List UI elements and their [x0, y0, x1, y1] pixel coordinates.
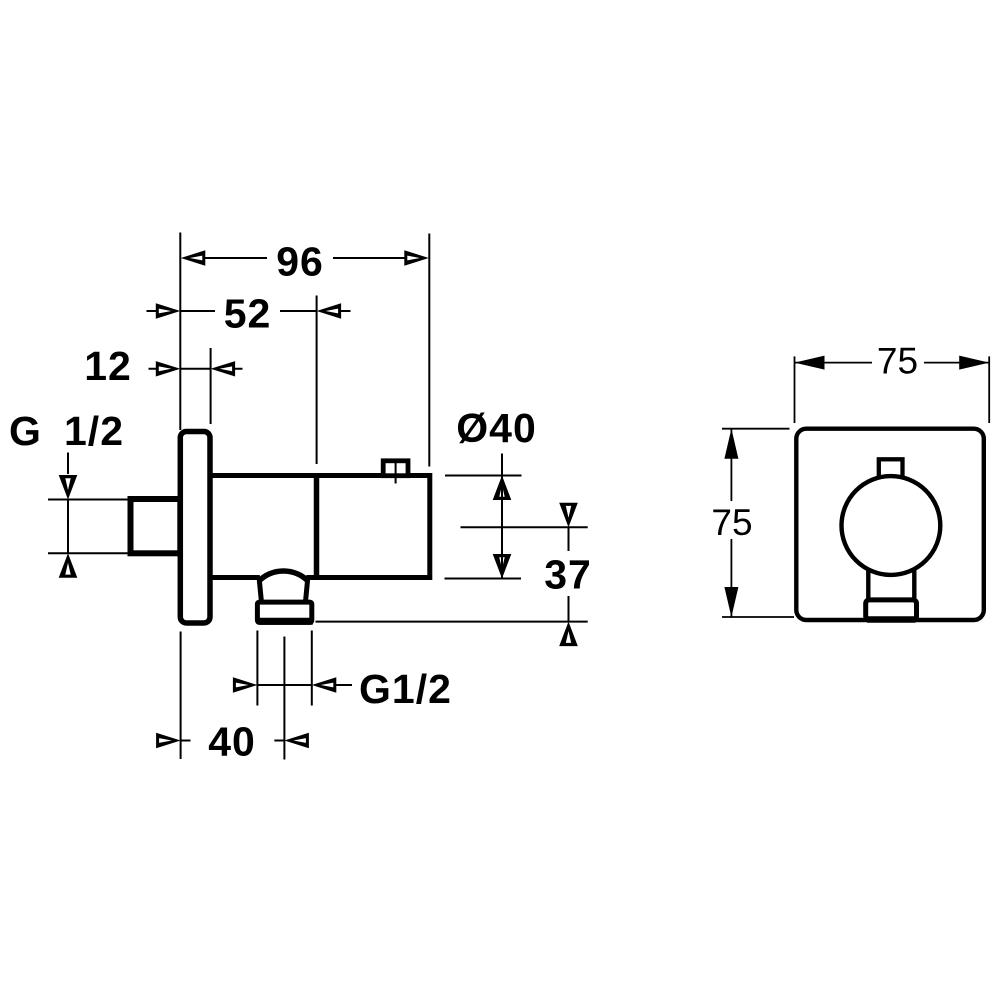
dim O40 ref top — [445, 475, 522, 477]
connector stub G1/2 — [131, 499, 181, 553]
extension line 96 right — [428, 234, 430, 467]
knob center line — [395, 459, 397, 484]
spout neck right — [306, 580, 308, 601]
front circle — [842, 476, 941, 575]
front knob — [879, 459, 903, 481]
ext line collar right — [311, 631, 313, 706]
dim 52 arrow left — [156, 303, 181, 318]
front collar — [866, 600, 917, 620]
svg-text:G: G — [9, 408, 42, 454]
dim O40 arrow down — [493, 554, 512, 579]
spout collar bottom band — [259, 618, 313, 625]
dim G1/2 left line between — [67, 500, 69, 554]
dim 37 arrow up — [559, 622, 578, 647]
dim 75 top line — [795, 362, 990, 364]
front neck right — [912, 569, 916, 599]
dim 96 line — [205, 257, 405, 259]
wall plate — [180, 432, 210, 624]
dim 75 left arrow up — [724, 429, 738, 459]
knob on body — [383, 461, 408, 476]
svg-text:12: 12 — [84, 343, 132, 389]
spout neck left — [259, 580, 261, 601]
square escutcheon — [796, 429, 984, 620]
dim G1/2 bottom arrow left — [233, 677, 258, 692]
dim 37 ref bottom — [316, 621, 588, 623]
dim 12 arrow left — [156, 361, 181, 376]
svg-text:G1/2: G1/2 — [359, 666, 452, 712]
dim 37 ref center — [461, 526, 588, 528]
front collar bottom band — [867, 616, 916, 623]
dim G1/2 left arrow down — [59, 475, 78, 500]
dim O40 ref bottom — [445, 578, 522, 580]
svg-text:37: 37 — [544, 552, 592, 598]
svg-text:75: 75 — [877, 341, 918, 382]
extension line 52 right — [316, 296, 318, 465]
dim G1/2 bottom line — [257, 684, 352, 686]
dim O40 arrow up — [493, 476, 512, 501]
dim O40 stem — [501, 454, 503, 579]
front neck left — [866, 569, 870, 599]
dim 75 left line — [730, 429, 732, 617]
dim 75 left arrow down — [724, 587, 738, 617]
dim G1/2 left stem — [67, 453, 69, 475]
dim 37 arrow down — [559, 503, 578, 528]
spout center line — [283, 637, 285, 760]
ref line 75 left top — [722, 428, 790, 430]
svg-text:40: 40 — [208, 719, 256, 765]
dim 52 arrow right — [317, 303, 342, 318]
body outline top+right+bottom-right — [210, 476, 430, 578]
spout dome — [258, 571, 308, 582]
dim 40 arrow right — [284, 733, 309, 748]
dim 12 arrow right — [211, 361, 236, 376]
dim 96 arrow left — [181, 250, 206, 265]
extension line left (below plate) — [180, 632, 182, 760]
ext line 75 top right — [988, 356, 990, 423]
spout collar — [257, 602, 311, 622]
body bottom-left segment — [210, 575, 260, 580]
dim G1/2 bottom arrow right — [312, 677, 337, 692]
dim 75 top arrow right — [959, 356, 989, 370]
dim 12 line — [149, 368, 243, 370]
dim 40 stubs — [181, 740, 285, 742]
dim G1/2 left ref lines — [48, 500, 131, 554]
svg-text:1/2: 1/2 — [64, 408, 124, 454]
ref line 75 left bottom — [722, 616, 794, 618]
svg-text:Ø40: Ø40 — [456, 405, 537, 451]
ext line collar left — [256, 631, 258, 706]
extension line 12 right — [210, 348, 212, 424]
dim G1/2 left arrow up — [59, 553, 78, 578]
svg-text:75: 75 — [711, 502, 752, 543]
svg-text:52: 52 — [224, 291, 272, 337]
dim 96 arrow right — [404, 250, 429, 265]
body division line — [314, 473, 320, 577]
ext line 75 top left — [794, 356, 796, 423]
dim 40 arrow left — [156, 733, 181, 748]
extension line left (plate left edge, above plate) — [179, 233, 181, 431]
dim 37 segments — [568, 527, 570, 621]
dim 52 line — [147, 310, 351, 312]
dim 75 top arrow left — [795, 356, 825, 370]
svg-text:96: 96 — [276, 239, 324, 285]
